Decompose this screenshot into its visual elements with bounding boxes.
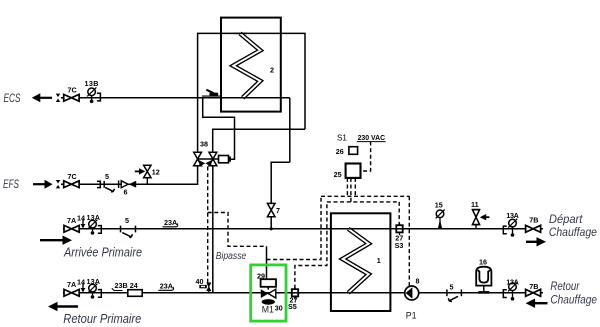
flow arrow Depart Chauffage (right) bbox=[526, 237, 546, 246]
svg-text:23A: 23A bbox=[164, 218, 177, 227]
drain valve 40 bbox=[199, 283, 210, 293]
svg-text:16: 16 bbox=[479, 258, 487, 267]
wire: 230 VAC supply dash to controller bbox=[361, 142, 371, 172]
svg-text:2: 2 bbox=[270, 66, 274, 75]
wire: controller rail 2 right drop to S3 bbox=[398, 202, 400, 229]
svg-text:26: 26 bbox=[336, 147, 344, 156]
wire: controller rail 1 (M1 - pump P1) bbox=[321, 195, 409, 197]
svg-text:EFS: EFS bbox=[3, 179, 19, 191]
thermometer 13A on Arrivee line bbox=[88, 220, 101, 235]
wire: vertical from ECS line down (primary riser right of exchanger 2) bbox=[289, 98, 291, 163]
union fitting on EFS line bbox=[56, 180, 60, 188]
heat exchanger 1 (chauffage) body bbox=[331, 213, 391, 311]
temperature bulb of valve 38 on ECS line bbox=[202, 90, 221, 96]
svg-text:P1: P1 bbox=[406, 311, 417, 322]
svg-text:13A: 13A bbox=[87, 277, 101, 286]
wire: control dash elbow to M1 bbox=[208, 213, 267, 247]
thermometer 13A on Retour line bbox=[88, 284, 101, 299]
svg-text:ECS: ECS bbox=[4, 93, 21, 105]
svg-text:7B: 7B bbox=[529, 282, 538, 291]
svg-text:S5: S5 bbox=[288, 302, 297, 311]
wire: valve 7 stem to Arrivee line bbox=[270, 217, 272, 229]
drain 14 on Retour line bbox=[81, 283, 86, 293]
svg-text:5: 5 bbox=[125, 216, 129, 225]
thermometer 13B bbox=[87, 87, 100, 103]
svg-text:5: 5 bbox=[450, 282, 454, 291]
actuator of valve 38 bbox=[219, 156, 229, 163]
svg-text:7C: 7C bbox=[68, 86, 77, 95]
strainer 24 on Retour line bbox=[128, 290, 142, 297]
safety valve 11 with discharge arrow bbox=[472, 210, 489, 229]
svg-text:Départ: Départ bbox=[549, 214, 583, 226]
wire: controller drop A bbox=[346, 178, 348, 196]
valve 7B on Depart line bbox=[526, 225, 541, 232]
heat exchanger 2 (ECS) body bbox=[221, 18, 281, 112]
svg-text:40: 40 bbox=[196, 277, 204, 286]
wire: capillary from bulb to valve 38 actuator bbox=[203, 98, 235, 159]
svg-text:7B: 7B bbox=[529, 216, 538, 225]
svg-text:Retour: Retour bbox=[550, 281, 580, 293]
svg-text:Arrivée Primaire: Arrivée Primaire bbox=[63, 245, 142, 260]
check valve 6 on EFS line bbox=[119, 180, 137, 188]
valve 7C on ECS line bbox=[64, 94, 79, 101]
wire: Arrivee Primaire / Depart Chauffage line bbox=[63, 228, 543, 230]
wire: EFS line bbox=[61, 166, 198, 185]
flow arrow Arrivee Primaire (right) bbox=[40, 236, 72, 245]
wire: ECS line bbox=[61, 97, 290, 99]
union fitting on ECS line bbox=[56, 94, 60, 102]
svg-text:13A: 13A bbox=[506, 277, 519, 286]
flow arrow Retour Chauffage (left) bbox=[526, 299, 548, 308]
svg-text:M1: M1 bbox=[262, 304, 274, 315]
wire: Retour Primaire / Retour Chauffage line bbox=[63, 292, 543, 294]
svg-text:S1: S1 bbox=[337, 133, 347, 142]
wire: step to valve 7 bbox=[271, 162, 290, 203]
wire: controller rail 1 right drop to pump bbox=[408, 196, 410, 285]
valve 7B on Retour Chauffage line bbox=[526, 289, 541, 296]
thermometer 13A on Depart line bbox=[503, 219, 517, 237]
svg-text:38: 38 bbox=[200, 140, 208, 149]
valve 7A on Arrivee line bbox=[64, 225, 79, 232]
svg-text:6: 6 bbox=[124, 188, 128, 197]
controller 25 bbox=[346, 164, 361, 178]
heat exchanger 2 coil (double-line zigzag) bbox=[233, 33, 260, 97]
svg-text:Retour Primaire: Retour Primaire bbox=[63, 311, 141, 326]
svg-text:Chauffage: Chauffage bbox=[549, 227, 597, 239]
fitting 5 on EFS line bbox=[97, 181, 115, 192]
wire: M1 actuator control drop bbox=[266, 246, 268, 279]
svg-text:5: 5 bbox=[105, 172, 109, 181]
wire: controller drop C bbox=[354, 178, 356, 196]
expansion vessel 16 bbox=[476, 267, 491, 293]
svg-text:14: 14 bbox=[77, 278, 85, 287]
svg-text:23B: 23B bbox=[115, 281, 128, 290]
junction node at valve 7 / Arrivee line bbox=[270, 227, 273, 230]
svg-text:7A: 7A bbox=[67, 280, 76, 289]
flow arrow EFS (right) bbox=[33, 180, 53, 189]
wire: controller rail 2 left to sensor S5 bbox=[295, 202, 327, 289]
svg-text:11: 11 bbox=[471, 200, 479, 209]
svg-text:S3: S3 bbox=[395, 241, 404, 250]
3-way valve M1 with actuator 29/30 bbox=[261, 279, 276, 305]
drain 14 on Arrivee line bbox=[81, 219, 86, 229]
svg-text:230 VAC: 230 VAC bbox=[358, 133, 386, 142]
svg-text:13A: 13A bbox=[87, 213, 101, 222]
valve 7 (vertical) bbox=[267, 203, 275, 216]
svg-text:1: 1 bbox=[377, 256, 381, 265]
svg-text:23A: 23A bbox=[160, 281, 173, 290]
svg-text:29: 29 bbox=[257, 271, 265, 280]
svg-text:14: 14 bbox=[77, 214, 85, 223]
wire: bypass column bbox=[212, 166, 214, 293]
wire: loop pipe under exchanger 2 bbox=[213, 129, 305, 152]
wire: top pipe above exchanger 2 bbox=[198, 33, 305, 152]
svg-text:8: 8 bbox=[416, 276, 420, 285]
valve 7A on Retour line bbox=[64, 289, 79, 296]
svg-text:13B: 13B bbox=[85, 79, 99, 88]
svg-text:25: 25 bbox=[334, 170, 342, 179]
flow arrow Retour Primaire (left) bbox=[48, 302, 78, 311]
svg-text:15: 15 bbox=[435, 201, 443, 210]
svg-text:Bipasse: Bipasse bbox=[216, 250, 247, 262]
svg-text:7C: 7C bbox=[68, 172, 77, 181]
svg-text:7A: 7A bbox=[67, 216, 76, 225]
svg-text:30: 30 bbox=[275, 303, 283, 312]
flow arrow ECS (left) bbox=[32, 93, 52, 102]
svg-text:13A: 13A bbox=[506, 211, 519, 220]
valve 7C on EFS line bbox=[64, 181, 79, 188]
wire: pipe patches at exchanger coil tips bbox=[233, 33, 355, 292]
outdoor sensor 26 bbox=[349, 147, 358, 155]
svg-text:12: 12 bbox=[152, 167, 160, 176]
svg-text:Chauffage: Chauffage bbox=[550, 294, 597, 306]
heat exchanger 1 coil (double-line zigzag) bbox=[343, 229, 369, 293]
thermometer 13A on Retour Chauffage line bbox=[503, 282, 517, 300]
svg-text:7: 7 bbox=[276, 206, 280, 215]
thermometer 15 on Depart line bbox=[436, 209, 445, 228]
wire: controller drop B bbox=[350, 178, 352, 202]
sensor S5 on Retour line bbox=[290, 287, 300, 300]
wire: controller rail 1 left to M1 bbox=[267, 196, 322, 259]
drain valve 12 with discharge arrow bbox=[135, 165, 151, 184]
fitting 5 on Arrivee line bbox=[121, 226, 136, 238]
3-way thermostatic valve 38 bbox=[194, 152, 231, 166]
pump P1 bbox=[405, 286, 419, 300]
fitting 5 on Retour Chauffage line bbox=[447, 289, 462, 301]
wire: controller rail 2 (S5 - S3) bbox=[327, 201, 399, 203]
wire: control dash from valve 38 down bbox=[207, 167, 209, 284]
svg-text:24: 24 bbox=[130, 281, 138, 290]
green highlight box around M1 bbox=[251, 265, 286, 321]
sensor S3 on Depart line bbox=[395, 223, 404, 235]
